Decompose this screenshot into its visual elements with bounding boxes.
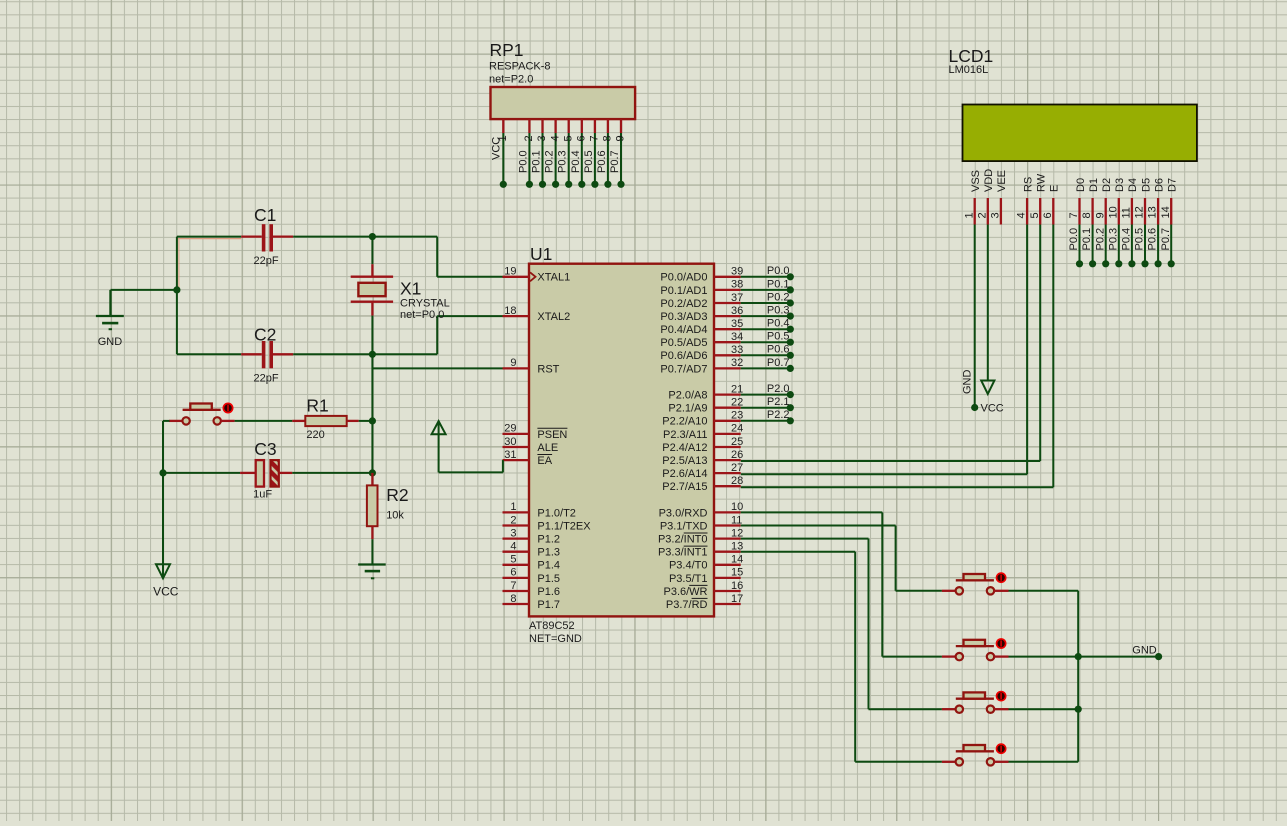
- wire button left elbow: [163, 421, 170, 473]
- svg-text:7: 7: [510, 580, 516, 592]
- power symbol VCC bottom left: [156, 564, 170, 578]
- LCD1 pin 4 RS: [1016, 177, 1035, 225]
- svg-text:P0.0: P0.0: [767, 265, 790, 277]
- svg-text:P2.5/A13: P2.5/A13: [662, 455, 707, 467]
- wire EA to power arrow: [439, 434, 503, 472]
- wire left vertical C1-C2: [176, 237, 178, 355]
- svg-text:E: E: [1049, 185, 1061, 192]
- wire U1 pin 10 to button 2: [741, 512, 942, 656]
- svg-text:14: 14: [731, 554, 743, 566]
- svg-text:P0.2: P0.2: [544, 150, 556, 173]
- U1 pin 22 P2.1/A9: [668, 397, 743, 415]
- svg-text:22pF: 22pF: [254, 255, 279, 267]
- svg-text:P0.5: P0.5: [1134, 228, 1146, 251]
- svg-text:P0.5: P0.5: [767, 331, 790, 343]
- wire button 4 to bus: [1009, 761, 1079, 763]
- svg-text:C2: C2: [254, 325, 276, 345]
- net label wire P0.5: [741, 331, 794, 346]
- push button reset: [169, 404, 235, 425]
- svg-text:4: 4: [510, 541, 516, 553]
- net label wire P0.4: [741, 318, 794, 333]
- svg-text:P3.0/RXD: P3.0/RXD: [659, 507, 708, 519]
- svg-text:12: 12: [1134, 206, 1146, 218]
- push button reset interactive widget: [223, 403, 234, 414]
- svg-text:10k: 10k: [386, 510, 404, 522]
- svg-text:28: 28: [731, 475, 743, 487]
- svg-text:9: 9: [1094, 212, 1106, 218]
- svg-text:LCD1: LCD1: [949, 46, 994, 66]
- svg-text:P0.6/AD6: P0.6/AD6: [660, 350, 707, 362]
- wire D1 to net P0.1: [1081, 225, 1096, 268]
- push button SW2 interactive widget: [996, 638, 1007, 649]
- U1 pin 13 P3.3/INT1: [658, 541, 743, 559]
- LCD1 pin 2 VDD: [976, 169, 995, 225]
- svg-text:2: 2: [510, 514, 516, 526]
- LCD1 pin 12 D5: [1134, 178, 1153, 225]
- svg-text:P2.2/A10: P2.2/A10: [662, 416, 707, 428]
- LCD1 pin 8 D1: [1081, 178, 1100, 225]
- push button SW1: [942, 574, 1009, 595]
- LCD1 pin 6 E: [1042, 185, 1061, 225]
- svg-text:PSEN: PSEN: [537, 429, 567, 441]
- svg-text:17: 17: [731, 593, 743, 605]
- svg-text:29: 29: [504, 423, 516, 435]
- wire C3 row left segment: [163, 472, 240, 474]
- svg-text:C3: C3: [254, 439, 276, 459]
- wire D2 to net P0.2: [1094, 225, 1109, 268]
- RP1 pin 1 wire with VCC label: [490, 133, 509, 188]
- wire button to R1: [235, 420, 293, 422]
- push button SW1 interactive widget: [996, 572, 1007, 583]
- svg-text:P1.4: P1.4: [537, 560, 560, 572]
- svg-text:XTAL2: XTAL2: [537, 311, 570, 323]
- wire RW to U1 pin 26: [741, 225, 1040, 462]
- node junction C3 left: [159, 469, 166, 476]
- wire C1 row left segment: [177, 237, 241, 289]
- svg-text:CRYSTAL: CRYSTAL: [400, 298, 450, 310]
- svg-text:P0.7: P0.7: [609, 150, 621, 173]
- svg-text:9: 9: [510, 357, 516, 369]
- U1 pin 28 P2.7/A15: [662, 475, 743, 493]
- svg-text:P0.0/AD0: P0.0/AD0: [660, 272, 707, 284]
- U1 pin 19 XTAL1: [503, 266, 571, 284]
- wire C3 to junction: [292, 472, 372, 474]
- wire button bus vertical: [1077, 591, 1079, 762]
- power symbol arrow at EA: [432, 421, 446, 434]
- svg-text:D5: D5: [1140, 178, 1152, 192]
- svg-text:220: 220: [306, 429, 324, 441]
- capacitor C1: [241, 224, 293, 251]
- node junction GND branch: [173, 286, 180, 293]
- svg-text:P1.7: P1.7: [537, 599, 560, 611]
- svg-text:D3: D3: [1114, 178, 1126, 192]
- U1 pin 16 P3.6/WR: [663, 580, 743, 598]
- svg-text:P0.3: P0.3: [557, 150, 569, 173]
- svg-text:RST: RST: [537, 363, 559, 375]
- svg-text:31: 31: [504, 449, 516, 461]
- svg-text:P0.1: P0.1: [767, 278, 790, 290]
- U1 pin 5 P1.4: [503, 554, 561, 572]
- U1 pin 29 PSEN: [503, 423, 568, 441]
- node junction C1 row: [369, 233, 376, 240]
- svg-text:P0.0: P0.0: [517, 150, 529, 173]
- svg-text:P0.1: P0.1: [1081, 228, 1093, 251]
- wire D0 to net P0.0: [1068, 225, 1083, 268]
- U1 pin 11 P3.1/TXD: [660, 514, 743, 532]
- svg-text:13: 13: [1147, 206, 1159, 218]
- svg-text:ALE: ALE: [537, 442, 558, 454]
- svg-text:3: 3: [990, 212, 1002, 218]
- svg-text:R2: R2: [386, 485, 408, 505]
- svg-text:P0.4: P0.4: [767, 318, 790, 330]
- push button SW3: [942, 692, 1009, 713]
- U1 pin 1 P1.0/T2: [503, 501, 576, 519]
- U1 pin 39 P0.0/AD0: [660, 266, 743, 284]
- svg-text:GND: GND: [1132, 644, 1157, 656]
- svg-text:P1.1/T2EX: P1.1/T2EX: [537, 520, 591, 532]
- svg-text:P0.1: P0.1: [531, 150, 543, 173]
- LCD display LCD1 body: [963, 105, 1197, 162]
- svg-text:RW: RW: [1036, 173, 1048, 192]
- crystal X1: [351, 237, 393, 355]
- svg-text:LM016L: LM016L: [949, 64, 989, 76]
- svg-text:P0.5/AD5: P0.5/AD5: [660, 337, 707, 349]
- RP1 pin 8 wire P0.6: [596, 133, 614, 188]
- node junction C2 row: [369, 351, 376, 358]
- svg-text:P1.5: P1.5: [537, 573, 560, 585]
- wire C2 row right segment: [293, 353, 437, 355]
- svg-text:D6: D6: [1153, 178, 1165, 192]
- svg-text:P0.7: P0.7: [1160, 228, 1172, 251]
- svg-text:5: 5: [1029, 212, 1041, 218]
- svg-text:P0.3/AD3: P0.3/AD3: [660, 311, 707, 323]
- svg-text:VCC: VCC: [981, 403, 1004, 415]
- LCD1 pin 13 D6: [1147, 178, 1166, 225]
- ground symbol at VDD wire: [981, 381, 994, 395]
- RP1 pin 5 wire P0.3: [557, 133, 575, 188]
- LCD1 pin 9 D2: [1094, 178, 1113, 225]
- svg-text:P0.6: P0.6: [767, 344, 790, 356]
- node junction R1 right: [369, 417, 376, 424]
- LCD1 pin 10 D3: [1107, 178, 1126, 225]
- svg-text:GND: GND: [962, 370, 974, 395]
- svg-text:P0.4: P0.4: [1121, 228, 1133, 251]
- svg-text:D2: D2: [1101, 178, 1113, 192]
- net label wire P0.7: [741, 357, 794, 372]
- svg-text:VEE: VEE: [996, 170, 1008, 192]
- svg-text:3: 3: [510, 527, 516, 539]
- LCD1 pin 1 VSS: [963, 170, 982, 225]
- U1 pin 32 P0.7/AD7: [660, 357, 743, 375]
- RP1 pin 2 wire P0.0: [517, 133, 535, 188]
- push button SW3 interactive widget: [996, 691, 1007, 702]
- svg-text:P2.0/A8: P2.0/A8: [668, 390, 707, 402]
- U1 pin 2 P1.1/T2EX: [503, 514, 592, 532]
- wire C2 row left segment: [177, 353, 241, 355]
- svg-text:P3.7/RD: P3.7/RD: [666, 599, 708, 611]
- svg-text:AT89C52: AT89C52: [529, 620, 575, 632]
- svg-text:P0.6: P0.6: [1147, 228, 1159, 251]
- svg-text:P2.1/A9: P2.1/A9: [668, 403, 707, 415]
- RP1 pin 4 wire P0.2: [544, 133, 562, 188]
- net label wire P0.3: [741, 305, 794, 320]
- svg-text:3: 3: [536, 135, 548, 141]
- svg-text:P2.4/A12: P2.4/A12: [662, 442, 707, 454]
- wire D6 to net P0.6: [1147, 225, 1162, 268]
- svg-text:8: 8: [602, 135, 614, 141]
- svg-text:P2.3/A11: P2.3/A11: [663, 429, 707, 441]
- net label wire P0.6: [741, 344, 794, 359]
- svg-text:7: 7: [1068, 212, 1080, 218]
- svg-text:15: 15: [731, 567, 743, 579]
- U1 pin 31 EA: [503, 449, 553, 467]
- resistor R2: [367, 473, 378, 539]
- svg-text:25: 25: [731, 436, 743, 448]
- svg-text:P0.5: P0.5: [583, 150, 595, 173]
- svg-text:18: 18: [504, 305, 516, 317]
- push button SW4: [942, 745, 1009, 766]
- svg-text:1uF: 1uF: [253, 489, 272, 501]
- U1 pin 38 P0.1/AD1: [660, 279, 743, 297]
- U1 pin 24 P2.3/A11: [663, 423, 743, 441]
- wire button 3 to bus: [1009, 708, 1079, 710]
- wire VSS to GND net terminal: [971, 225, 978, 412]
- svg-text:19: 19: [504, 266, 516, 278]
- U1 pin 30 ALE: [503, 436, 559, 454]
- wire R2 to ground: [371, 539, 373, 564]
- svg-text:RP1: RP1: [490, 40, 524, 60]
- svg-text:X1: X1: [400, 279, 421, 299]
- svg-text:P1.3: P1.3: [537, 547, 560, 559]
- svg-text:P0.4: P0.4: [570, 150, 582, 173]
- svg-text:P0.4/AD4: P0.4/AD4: [660, 324, 707, 336]
- net label wire P2.0: [741, 383, 794, 398]
- svg-text:VCC: VCC: [153, 585, 179, 599]
- wire U1 pin 12 to button 3: [741, 539, 942, 710]
- svg-text:4: 4: [1016, 212, 1028, 218]
- U1 pin 36 P0.3/AD3: [660, 305, 743, 323]
- resistor R1: [292, 416, 358, 426]
- LCD1 pin 11 D4: [1121, 178, 1140, 225]
- wire VDD to ground symbol: [987, 225, 989, 381]
- svg-text:P2.0: P2.0: [767, 383, 790, 395]
- wire VCC drop: [162, 473, 164, 578]
- U1 pin 12 P3.2/INT0: [658, 527, 743, 545]
- svg-text:VDD: VDD: [983, 169, 995, 192]
- wire U1 pin 13 to button 4: [741, 552, 942, 762]
- U1 pin 23 P2.2/A10: [662, 410, 743, 428]
- U1 pin 21 P2.0/A8: [668, 383, 743, 401]
- wire D4 to net P0.4: [1121, 225, 1136, 268]
- svg-text:P3.6/WR: P3.6/WR: [663, 586, 707, 598]
- svg-text:4: 4: [549, 135, 561, 141]
- svg-text:8: 8: [510, 593, 516, 605]
- U1 pin 8 P1.7: [503, 593, 561, 611]
- U1 pin 9 RST: [503, 357, 560, 375]
- svg-text:8: 8: [1081, 212, 1093, 218]
- RP1 pin 7 wire P0.5: [583, 133, 601, 188]
- node junction bus row3: [1075, 706, 1082, 713]
- wire button 1 to bus: [1009, 590, 1079, 592]
- svg-text:5: 5: [562, 135, 574, 141]
- net label wire P0.1: [741, 278, 794, 293]
- svg-text:P2.7/A15: P2.7/A15: [662, 481, 707, 493]
- net label wire P0.2: [741, 291, 794, 306]
- U1 pin 17 P3.7/RD: [666, 593, 743, 611]
- svg-text:22pF: 22pF: [254, 373, 279, 385]
- U1 pin 3 P1.2: [503, 527, 561, 545]
- svg-text:P0.7: P0.7: [767, 357, 790, 369]
- svg-text:P0.3: P0.3: [767, 305, 790, 317]
- svg-text:26: 26: [731, 449, 743, 461]
- svg-text:XTAL1: XTAL1: [537, 272, 570, 284]
- net label wire P2.1: [741, 396, 794, 411]
- svg-text:5: 5: [510, 554, 516, 566]
- resistor pack RP1: [491, 87, 636, 133]
- svg-text:P1.6: P1.6: [537, 586, 560, 598]
- svg-text:P0.3: P0.3: [1107, 228, 1119, 251]
- U1 pin 33 P0.6/AD6: [660, 344, 743, 362]
- svg-text:D7: D7: [1167, 178, 1179, 192]
- svg-text:C1: C1: [254, 205, 276, 225]
- svg-text:1: 1: [510, 501, 516, 513]
- U1 pin 25 P2.4/A12: [662, 436, 743, 454]
- svg-text:GND: GND: [98, 336, 123, 348]
- svg-text:2: 2: [976, 212, 988, 218]
- svg-text:P0.2: P0.2: [1094, 228, 1106, 251]
- svg-text:1: 1: [963, 212, 975, 218]
- wire R1 to junction: [359, 420, 373, 422]
- svg-text:VSS: VSS: [970, 170, 982, 192]
- wire D5 to net P0.5: [1134, 225, 1149, 268]
- wire XTAL1 elbow: [437, 237, 502, 277]
- wire GND branch: [111, 289, 177, 291]
- RP1 pin 6 wire P0.4: [570, 133, 588, 188]
- U1 pin 26 P2.5/A13: [662, 449, 743, 467]
- svg-text:net=P0.0: net=P0.0: [400, 309, 444, 321]
- wire button 2 to bus: [1009, 656, 1079, 658]
- svg-text:11: 11: [1121, 207, 1133, 218]
- svg-text:P0.1/AD1: P0.1/AD1: [660, 285, 707, 297]
- U1 pin 15 P3.5/T1: [669, 567, 743, 585]
- svg-text:16: 16: [731, 580, 743, 592]
- svg-text:D4: D4: [1127, 178, 1139, 192]
- svg-text:6: 6: [576, 135, 588, 141]
- svg-text:10: 10: [1107, 206, 1119, 218]
- svg-text:P3.5/T1: P3.5/T1: [669, 573, 708, 585]
- wire RST to U1 pin 9: [372, 367, 502, 369]
- svg-text:P2.6/A14: P2.6/A14: [662, 468, 707, 480]
- svg-text:P0.2/AD2: P0.2/AD2: [660, 298, 707, 310]
- LCD1 pin 5 RW: [1029, 173, 1048, 224]
- node junction C3 right: [369, 469, 376, 476]
- svg-text:D1: D1: [1088, 178, 1100, 192]
- wire bus to GND terminal: [1078, 653, 1162, 660]
- svg-text:6: 6: [510, 567, 516, 579]
- wire RS to U1 pin 27: [741, 225, 1027, 475]
- U1 pin 10 P3.0/RXD: [659, 501, 744, 519]
- svg-text:2: 2: [523, 135, 535, 141]
- svg-text:P1.2: P1.2: [537, 534, 560, 546]
- svg-text:U1: U1: [530, 244, 552, 264]
- svg-text:P3.4/T0: P3.4/T0: [669, 560, 708, 572]
- svg-text:EA: EA: [537, 455, 552, 467]
- wire XTAL2 elbow: [437, 316, 502, 354]
- svg-text:14: 14: [1160, 206, 1172, 218]
- svg-text:P2.1: P2.1: [767, 396, 790, 408]
- svg-text:P3.3/INT1: P3.3/INT1: [658, 547, 708, 559]
- wire C1 row right segment: [293, 236, 437, 238]
- wire D7 to net P0.7: [1160, 225, 1175, 268]
- net label wire P2.2: [741, 409, 794, 424]
- net label wire P0.0: [741, 265, 794, 280]
- svg-text:P3.1/TXD: P3.1/TXD: [660, 520, 708, 532]
- RP1 pin 9 wire P0.7: [609, 133, 627, 188]
- svg-text:P0.0: P0.0: [1068, 228, 1080, 251]
- svg-text:RS: RS: [1022, 177, 1034, 192]
- svg-text:9: 9: [615, 135, 627, 141]
- svg-text:net=P2.0: net=P2.0: [489, 74, 533, 86]
- wire D3 to net P0.3: [1107, 225, 1122, 268]
- svg-text:R1: R1: [306, 395, 328, 415]
- LCD1 pin 7 D0: [1068, 178, 1087, 225]
- svg-text:D0: D0: [1075, 178, 1087, 192]
- svg-text:RESPACK-8: RESPACK-8: [489, 61, 551, 73]
- U1 pin 35 P0.4/AD4: [660, 318, 743, 336]
- wire main vertical junction column: [371, 354, 373, 473]
- svg-text:P0.6: P0.6: [596, 150, 608, 173]
- wire U1 pin 11 to button 1: [741, 526, 942, 591]
- ground symbol left: [96, 290, 124, 330]
- U1 pin 27 P2.6/A14: [662, 462, 743, 480]
- U1 pin 7 P1.6: [503, 580, 561, 598]
- push button SW2: [942, 640, 1009, 661]
- push button SW4 interactive widget: [996, 743, 1007, 754]
- svg-text:P1.0/T2: P1.0/T2: [537, 507, 576, 519]
- U1 pin 14 P3.4/T0: [669, 554, 743, 572]
- svg-text:P0.7/AD7: P0.7/AD7: [660, 363, 707, 375]
- U1 pin 6 P1.5: [503, 567, 561, 585]
- wire E to U1 pin 28: [741, 225, 1054, 488]
- svg-text:7: 7: [589, 135, 601, 141]
- LCD1 pin 14 D7: [1160, 178, 1179, 225]
- microcontroller U1 AT89C52 body: [529, 264, 714, 617]
- capacitor C3 polarized: [240, 460, 292, 487]
- RP1 pin 3 wire P0.1: [531, 133, 549, 188]
- LCD1 pin 3 VEE: [990, 170, 1009, 225]
- svg-text:P0.2: P0.2: [767, 291, 790, 303]
- node junction bus row2: [1075, 653, 1082, 660]
- svg-text:6: 6: [1042, 212, 1054, 218]
- svg-text:1: 1: [497, 135, 509, 141]
- U1 pin 18 XTAL2: [503, 305, 571, 323]
- U1 pin 34 P0.5/AD5: [660, 331, 743, 349]
- svg-text:27: 27: [731, 462, 743, 474]
- svg-text:NET=GND: NET=GND: [529, 633, 582, 645]
- svg-text:P3.2/INT0: P3.2/INT0: [658, 534, 708, 546]
- svg-text:30: 30: [504, 436, 516, 448]
- ground symbol below R2: [358, 565, 386, 580]
- svg-text:24: 24: [731, 423, 743, 435]
- U1 pin 37 P0.2/AD2: [660, 292, 743, 310]
- capacitor C2: [241, 341, 293, 368]
- U1 pin 4 P1.3: [503, 541, 561, 559]
- svg-text:P2.2: P2.2: [767, 409, 790, 421]
